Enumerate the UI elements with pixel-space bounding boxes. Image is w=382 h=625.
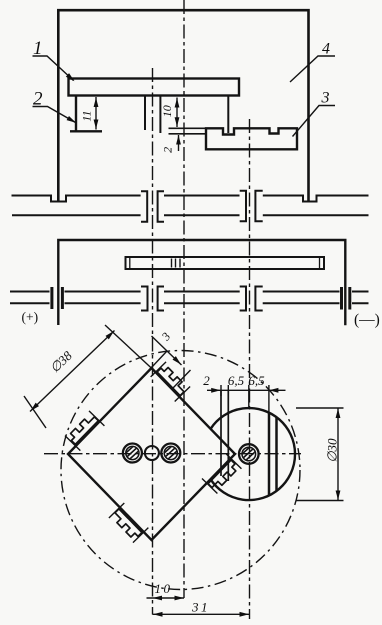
centerline main axis (183, 0, 185, 598)
clip on bottom-left edge (109, 503, 148, 543)
chord lines (269, 413, 277, 496)
svg-text:10: 10 (155, 581, 173, 596)
rail joint brackets right pair (240, 191, 246, 221)
dimension 11 (94, 97, 99, 130)
dimension 2 upper (176, 135, 181, 151)
svg-text:2: 2 (33, 89, 43, 110)
bar end caps (130, 257, 320, 269)
battery bar (126, 257, 325, 269)
screw on round cell (238, 442, 259, 464)
lower box (view 2) (58, 240, 345, 325)
clip on upper-left edge (65, 411, 104, 451)
svg-text:∅30: ∅30 (325, 438, 340, 463)
clip on bottom-right edge (202, 454, 241, 494)
center small circle (145, 446, 159, 460)
contact strip (169, 128, 207, 134)
dim 31 (153, 612, 250, 617)
housing body outline (part 4) (58, 10, 308, 200)
terminal bars left (52, 287, 63, 309)
dim 10 bottom (147, 596, 185, 601)
contact plate lines near right vertex (221, 390, 228, 481)
svg-text:(+): (+) (22, 310, 39, 325)
clip on top-right edge (151, 362, 190, 402)
lower joint brackets right pair (240, 287, 246, 311)
leg part 2 (75, 96, 77, 132)
dim phi30 (296, 408, 344, 501)
svg-text:3: 3 (321, 90, 330, 107)
svg-text:4: 4 (322, 41, 330, 58)
contact block part 3 (206, 128, 297, 149)
round cell circle (211, 408, 296, 500)
bar hatch marks (172, 259, 181, 268)
leg foot (70, 130, 102, 132)
plate part 1 (69, 79, 240, 96)
svg-text:6,5: 6,5 (248, 373, 265, 388)
rail joint brackets left pair (141, 191, 147, 222)
dimension 10 upper (175, 98, 180, 128)
svg-text:11: 11 (80, 110, 94, 121)
terminal bars right (342, 287, 350, 310)
svg-text:6,5: 6,5 (228, 373, 245, 388)
dim phi38 (24, 325, 161, 428)
dim 2-6,5-6,5 (207, 385, 286, 418)
top rail mid segment (164, 195, 240, 197)
svg-text:10: 10 (160, 105, 174, 117)
bottom rail segments (12, 214, 369, 216)
pin right (159, 96, 161, 134)
svg-text:(—): (—) (354, 312, 380, 329)
dashed pitch circle (61, 351, 300, 590)
top rail with wall pockets (12, 196, 141, 202)
lower rails (10, 292, 50, 304)
callout 1 (33, 56, 74, 81)
screw left (122, 441, 143, 463)
dim 3 top (136, 336, 191, 388)
battery diamond (68, 368, 235, 540)
svg-text:1: 1 (33, 38, 43, 59)
svg-text:31: 31 (191, 600, 210, 615)
centerline circle axis (249, 119, 251, 619)
callout 2 (33, 107, 76, 123)
svg-text:2: 2 (161, 147, 175, 153)
callout 4 (290, 56, 335, 82)
lower joint brackets left pair (141, 287, 148, 311)
svg-text:2: 2 (203, 373, 210, 388)
horizontal centerline bottom view (44, 453, 301, 455)
screw right (160, 441, 181, 463)
pin left (144, 96, 146, 131)
svg-text:3: 3 (158, 330, 173, 344)
top rail right segment with pocket (263, 196, 369, 202)
centerline diamond axis (152, 68, 154, 615)
pin at contact block (227, 96, 229, 134)
callout 3 (293, 106, 336, 137)
